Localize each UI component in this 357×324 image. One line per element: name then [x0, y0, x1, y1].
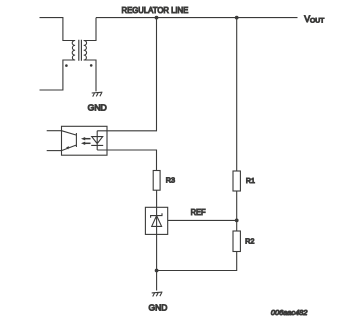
wire: secondary top to regulator line: [84, 18, 96, 41]
optocoupler light arrow 2: [85, 142, 91, 144]
wire: R2 bottom to return line: [157, 252, 237, 271]
wire: REF: [168, 219, 237, 221]
shunt regulator U2 zener triangle: [152, 216, 162, 227]
wire: optocoupler left bottom stub: [47, 150, 62, 152]
wire: primary bottom stub: [40, 60, 76, 90]
svg-text:GND: GND: [88, 102, 107, 112]
optocoupler LED: [91, 131, 103, 150]
ground (output): [152, 292, 163, 296]
shunt regulator U2 zener cathode bar: [151, 213, 162, 218]
svg-text:R2: R2: [245, 237, 254, 246]
wire: secondary bottom to ground: [84, 60, 96, 91]
wire: top rail down to R1: [236, 18, 238, 171]
optocoupler phototransistor: [62, 131, 77, 151]
resistor R3: [153, 171, 160, 191]
transformer T1 core: [79, 40, 82, 61]
transformer T1 secondary phase dot: [90, 64, 93, 67]
wire: REGULATOR LINE top rail: [96, 17, 298, 19]
svg-text:R3: R3: [166, 176, 175, 185]
svg-text:GND: GND: [149, 302, 168, 312]
wire: REF node to R2: [236, 220, 238, 231]
svg-text:006aac482: 006aac482: [271, 308, 308, 317]
transformer T1 secondary winding: [84, 41, 87, 61]
resistor R2: [233, 231, 240, 252]
junction: top rail / optocoupler branch: [155, 16, 159, 20]
junction: shunt regulator / return line: [155, 269, 159, 273]
wire: optocoupler LED cathode to R3: [97, 150, 156, 171]
svg-text:VOUT: VOUT: [304, 14, 324, 24]
optocoupler U1 body: [62, 126, 108, 155]
transformer T1 primary phase dot: [65, 64, 68, 67]
svg-text:REF: REF: [191, 208, 206, 217]
wire: R1 to REF node: [236, 191, 238, 220]
svg-text:REGULATOR LINE: REGULATOR LINE: [122, 5, 189, 15]
shunt regulator U2 body: [145, 207, 167, 234]
ground (transformer secondary): [92, 92, 103, 96]
optocoupler light arrow 1: [85, 138, 91, 140]
wire: R3 to shunt regulator: [156, 190, 158, 207]
junction: top rail / R1 branch: [235, 16, 239, 20]
transformer T1 primary winding: [72, 41, 75, 61]
wire: shunt regulator anode to ground: [156, 234, 158, 290]
svg-text:R1: R1: [246, 176, 255, 185]
shunt regulator U2 internal wire: [156, 207, 158, 234]
wire: optocoupler left top stub: [47, 130, 62, 132]
wire: primary top stub: [40, 18, 76, 41]
resistor R1: [233, 171, 240, 191]
wire: top rail down to optocoupler transistor: [97, 18, 156, 131]
junction: REF / R1 / R2: [235, 219, 239, 223]
